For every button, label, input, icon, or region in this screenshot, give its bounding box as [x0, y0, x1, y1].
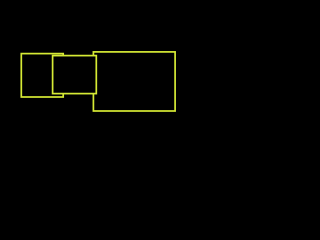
box A (left rectangle, behind) — [21, 54, 63, 97]
box C (large right rectangle, behind) — [93, 52, 175, 111]
box B (middle rectangle, on top) — [53, 56, 97, 94]
